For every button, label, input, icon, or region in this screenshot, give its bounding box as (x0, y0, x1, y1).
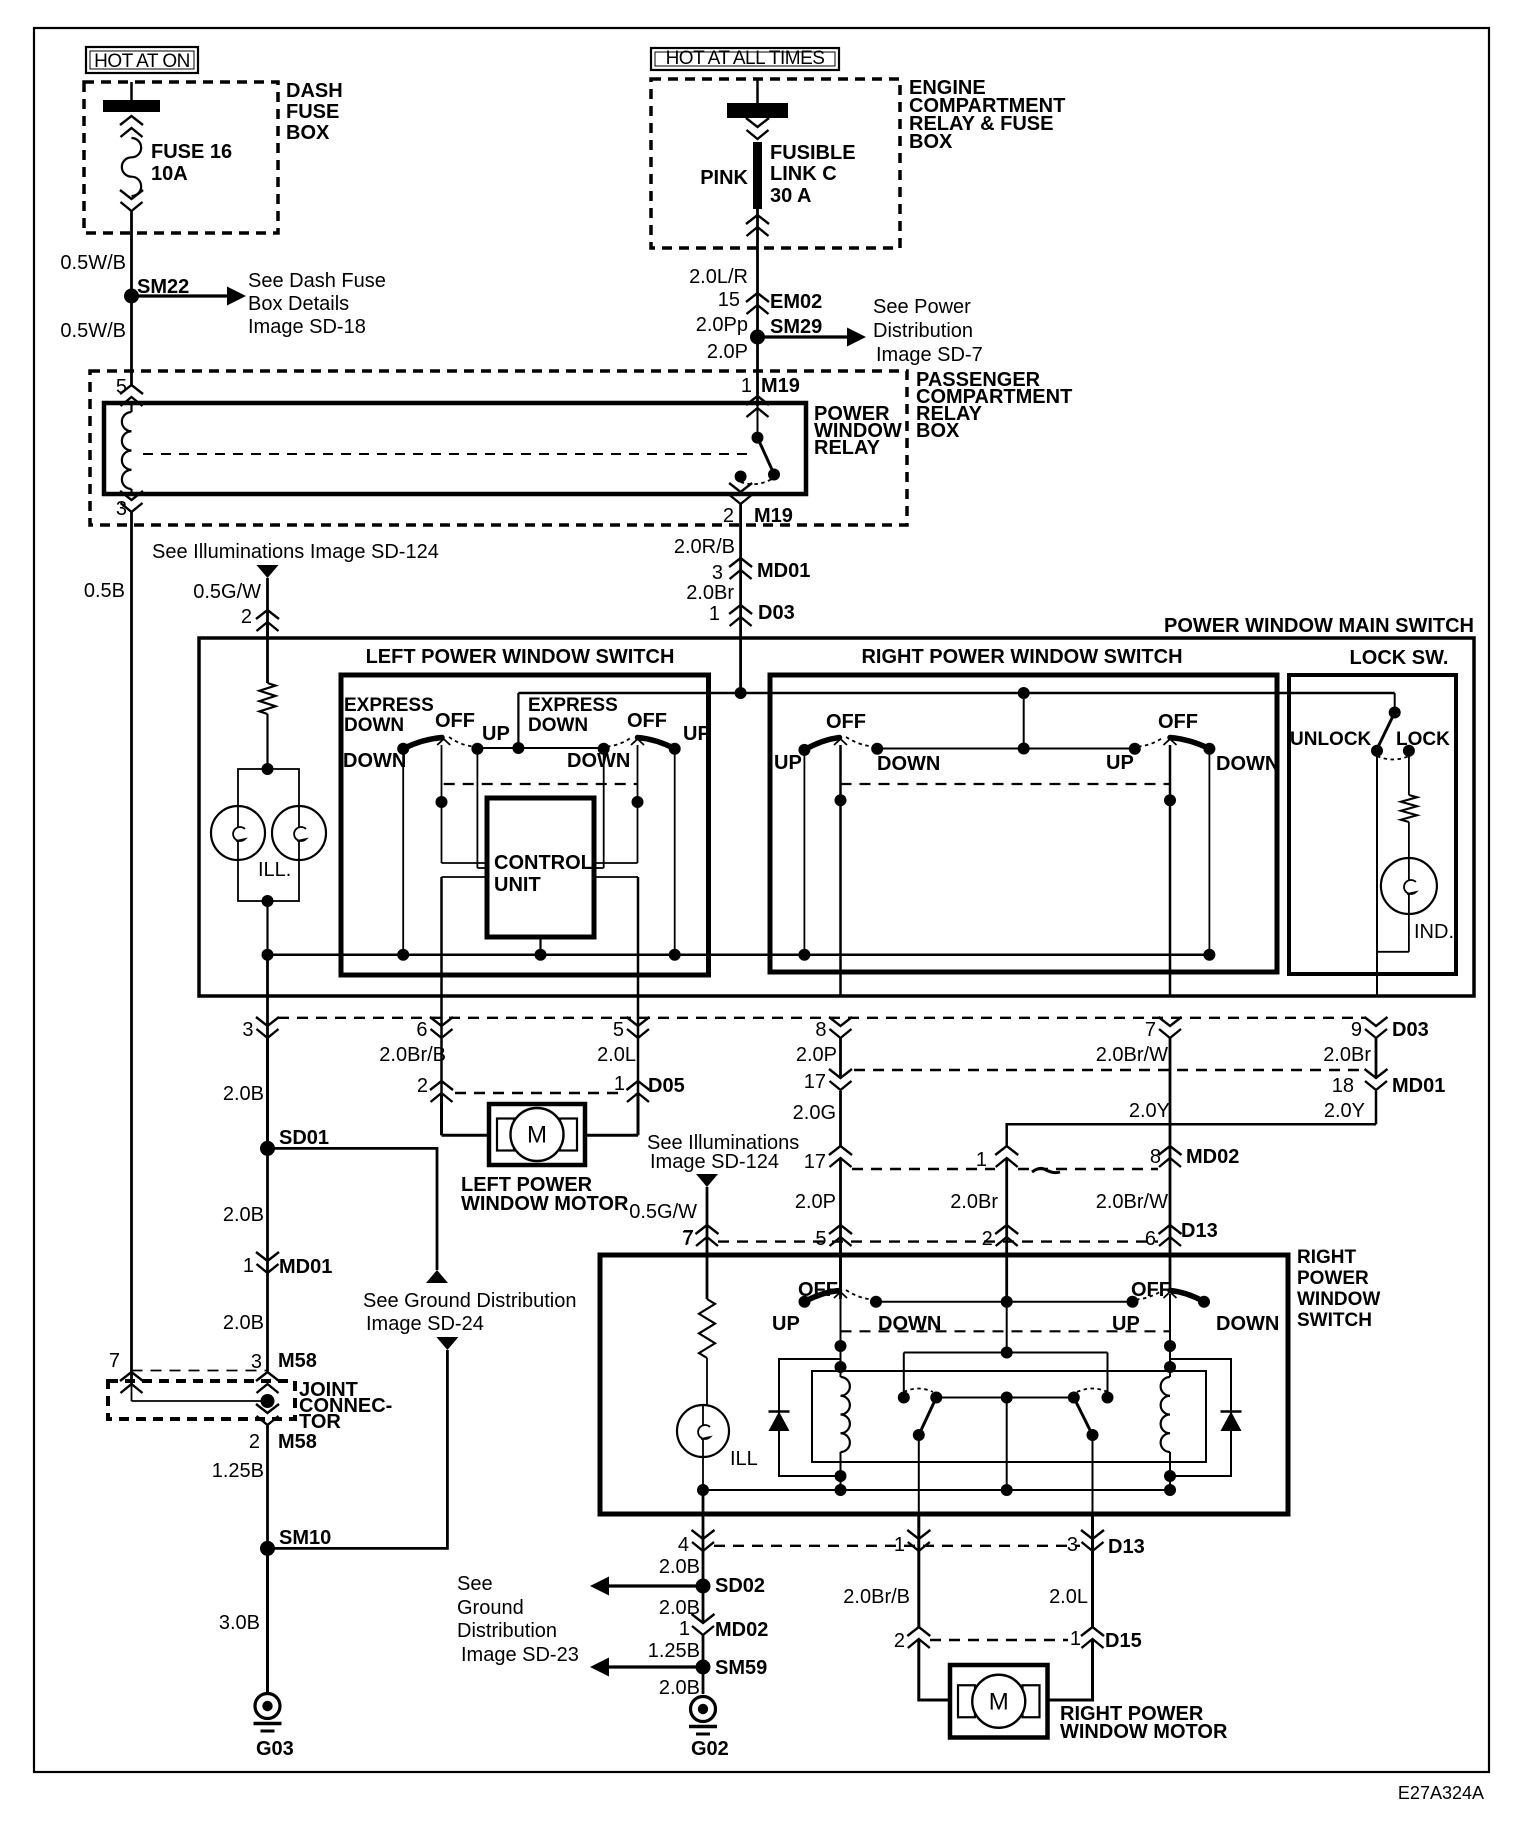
svg-text:SM59: SM59 (715, 1657, 767, 1679)
svg-text:SD01: SD01 (279, 1127, 329, 1149)
svg-text:2.0Br/W: 2.0Br/W (1096, 1044, 1168, 1066)
svg-text:2.0B: 2.0B (659, 1677, 700, 1699)
svg-text:1.25B: 1.25B (212, 1460, 264, 1482)
svg-text:LOCK SW.: LOCK SW. (1350, 647, 1449, 669)
svg-text:0.5W/B: 0.5W/B (60, 252, 126, 274)
svg-text:UP: UP (774, 752, 802, 774)
svg-text:2.0B: 2.0B (223, 1204, 264, 1226)
svg-text:5: 5 (613, 1019, 624, 1041)
svg-text:IND.: IND. (1414, 921, 1454, 943)
svg-text:1: 1 (976, 1149, 987, 1171)
svg-text:SM29: SM29 (770, 316, 822, 338)
svg-text:DOWN: DOWN (567, 750, 630, 772)
svg-text:ILL: ILL (730, 1448, 758, 1470)
svg-text:Image SD-24: Image SD-24 (366, 1313, 484, 1335)
svg-text:RIGHT POWER WINDOW SWITCH: RIGHT POWER WINDOW SWITCH (861, 646, 1182, 668)
svg-text:1: 1 (679, 1618, 690, 1640)
svg-text:E27A324A: E27A324A (1398, 1783, 1484, 1803)
svg-text:TOR: TOR (299, 1411, 341, 1433)
svg-text:UP: UP (1106, 752, 1134, 774)
svg-text:Ground: Ground (457, 1597, 524, 1619)
svg-text:2.0L/R: 2.0L/R (689, 266, 748, 288)
svg-text:UNIT: UNIT (494, 874, 541, 896)
svg-text:18: 18 (1332, 1075, 1354, 1097)
svg-text:Image SD-124: Image SD-124 (650, 1151, 779, 1173)
svg-text:DASH: DASH (286, 80, 343, 102)
svg-text:7: 7 (109, 1350, 120, 1372)
svg-text:15: 15 (718, 289, 740, 311)
svg-text:WINDOW MOTOR: WINDOW MOTOR (1060, 1721, 1228, 1743)
svg-text:1: 1 (1070, 1628, 1081, 1650)
svg-text:MD01: MD01 (1392, 1075, 1445, 1097)
svg-text:FUSE 16: FUSE 16 (151, 141, 232, 163)
svg-text:Image SD-18: Image SD-18 (248, 316, 366, 338)
svg-text:SD02: SD02 (715, 1575, 765, 1597)
svg-text:OFF: OFF (1131, 1279, 1171, 1301)
svg-text:Distribution: Distribution (457, 1620, 557, 1642)
svg-text:D15: D15 (1105, 1630, 1142, 1652)
svg-text:2.0B: 2.0B (223, 1083, 264, 1105)
svg-text:2.0Y: 2.0Y (1324, 1100, 1365, 1122)
svg-text:See Ground Distribution: See Ground Distribution (363, 1290, 576, 1312)
svg-text:POWER: POWER (1297, 1268, 1369, 1289)
svg-text:UP: UP (482, 723, 510, 745)
svg-text:See Illuminations Image SD-12: See Illuminations Image SD-124 (152, 541, 439, 563)
svg-text:SM10: SM10 (279, 1527, 331, 1549)
svg-text:MD01: MD01 (757, 560, 810, 582)
svg-text:FUSIBLE: FUSIBLE (770, 142, 856, 164)
svg-text:G03: G03 (256, 1738, 294, 1760)
svg-text:2: 2 (417, 1075, 428, 1097)
svg-text:1.25B: 1.25B (648, 1640, 700, 1662)
svg-text:6: 6 (1145, 1228, 1156, 1250)
svg-text:PINK: PINK (700, 167, 748, 189)
svg-text:DOWN: DOWN (877, 753, 940, 775)
svg-text:9: 9 (1351, 1019, 1362, 1041)
svg-text:1: 1 (709, 603, 720, 625)
svg-text:17: 17 (804, 1071, 826, 1093)
svg-text:RIGHT: RIGHT (1297, 1247, 1357, 1268)
svg-text:ILL.: ILL. (258, 859, 291, 881)
svg-text:10A: 10A (151, 163, 188, 185)
svg-text:OFF: OFF (1158, 711, 1198, 733)
svg-text:2: 2 (894, 1630, 905, 1652)
svg-text:3: 3 (712, 562, 723, 584)
svg-text:17: 17 (804, 1151, 826, 1173)
svg-text:8: 8 (1150, 1146, 1161, 1168)
svg-text:HOT AT ALL TIMES: HOT AT ALL TIMES (666, 48, 825, 69)
svg-text:M19: M19 (754, 505, 793, 527)
svg-text:2.0Pp: 2.0Pp (696, 314, 748, 336)
svg-text:UNLOCK: UNLOCK (1290, 729, 1372, 750)
svg-text:M58: M58 (278, 1431, 317, 1453)
svg-text:30 A: 30 A (770, 185, 812, 207)
svg-text:7: 7 (683, 1227, 694, 1249)
svg-text:OFF: OFF (627, 710, 667, 732)
svg-text:2.0Br/B: 2.0Br/B (843, 1586, 910, 1608)
svg-text:BOX: BOX (916, 420, 960, 442)
svg-text:DOWN: DOWN (1216, 753, 1279, 775)
svg-text:D13: D13 (1108, 1536, 1145, 1558)
svg-text:2.0L: 2.0L (597, 1044, 636, 1066)
svg-text:2.0Br: 2.0Br (686, 582, 734, 604)
svg-text:WINDOW MOTOR: WINDOW MOTOR (461, 1193, 629, 1215)
svg-text:M58: M58 (278, 1350, 317, 1372)
svg-text:Distribution: Distribution (873, 320, 973, 342)
svg-text:LINK C: LINK C (770, 163, 837, 185)
svg-text:OFF: OFF (798, 1279, 838, 1301)
svg-text:2.0B: 2.0B (659, 1556, 700, 1578)
svg-text:CONTROL: CONTROL (494, 852, 593, 874)
svg-text:DOWN: DOWN (344, 715, 404, 736)
svg-text:G02: G02 (691, 1738, 729, 1760)
svg-text:0.5G/W: 0.5G/W (629, 1201, 697, 1223)
svg-text:6: 6 (416, 1019, 427, 1041)
svg-text:See: See (457, 1573, 493, 1595)
svg-text:2.0R/B: 2.0R/B (674, 536, 735, 558)
svg-text:0.5B: 0.5B (84, 580, 125, 602)
svg-text:BOX: BOX (286, 122, 330, 144)
svg-text:M: M (527, 1122, 547, 1149)
svg-text:2: 2 (241, 606, 252, 628)
svg-text:M: M (989, 1688, 1009, 1715)
svg-text:2: 2 (249, 1431, 260, 1453)
svg-text:RELAY: RELAY (814, 437, 881, 459)
svg-text:SWITCH: SWITCH (1297, 1310, 1372, 1331)
svg-text:DOWN: DOWN (528, 715, 588, 736)
svg-text:UP: UP (683, 723, 711, 745)
svg-text:BOX: BOX (909, 131, 953, 153)
svg-text:5: 5 (116, 376, 127, 398)
svg-text:2.0Br: 2.0Br (1323, 1044, 1371, 1066)
svg-text:1: 1 (614, 1073, 625, 1095)
svg-text:5: 5 (815, 1228, 826, 1250)
svg-text:WINDOW: WINDOW (1297, 1289, 1380, 1310)
svg-text:See Dash Fuse: See Dash Fuse (248, 270, 386, 292)
svg-text:D03: D03 (758, 602, 795, 624)
svg-text:1: 1 (243, 1255, 254, 1277)
svg-text:8: 8 (815, 1019, 826, 1041)
svg-text:3: 3 (116, 498, 127, 520)
svg-text:3: 3 (251, 1351, 262, 1373)
svg-text:LEFT POWER WINDOW SWITCH: LEFT POWER WINDOW SWITCH (366, 646, 675, 668)
svg-text:3: 3 (242, 1019, 253, 1041)
svg-text:0.5W/B: 0.5W/B (60, 320, 126, 342)
svg-text:2.0Br: 2.0Br (950, 1191, 998, 1213)
svg-text:M19: M19 (761, 375, 800, 397)
svg-text:DOWN: DOWN (343, 750, 406, 772)
svg-text:0.5G/W: 0.5G/W (193, 581, 261, 603)
svg-text:DOWN: DOWN (1216, 1313, 1279, 1335)
svg-text:MD02: MD02 (715, 1619, 768, 1641)
svg-text:2.0L: 2.0L (1049, 1586, 1088, 1608)
svg-text:2.0Br/B: 2.0Br/B (379, 1044, 446, 1066)
svg-text:Box Details: Box Details (248, 293, 349, 315)
svg-text:2.0G: 2.0G (793, 1102, 836, 1124)
svg-text:2.0P: 2.0P (795, 1191, 836, 1213)
svg-text:2.0P: 2.0P (796, 1044, 837, 1066)
svg-text:Image SD-7: Image SD-7 (876, 344, 983, 366)
svg-text:MD02: MD02 (1186, 1146, 1239, 1168)
svg-text:D05: D05 (648, 1075, 685, 1097)
svg-text:D03: D03 (1392, 1019, 1429, 1041)
svg-text:EM02: EM02 (770, 291, 822, 313)
svg-text:7: 7 (1145, 1019, 1156, 1041)
svg-text:EXPRESS: EXPRESS (344, 695, 434, 716)
svg-text:EXPRESS: EXPRESS (528, 695, 618, 716)
svg-text:See Power: See Power (873, 296, 971, 318)
svg-text:Image SD-23: Image SD-23 (461, 1644, 579, 1666)
svg-text:LOCK: LOCK (1396, 729, 1450, 750)
svg-text:4: 4 (678, 1534, 689, 1556)
svg-text:2.0Y: 2.0Y (1129, 1100, 1170, 1122)
svg-text:MD01: MD01 (279, 1256, 332, 1278)
svg-text:D13: D13 (1181, 1220, 1218, 1242)
svg-text:FUSE: FUSE (286, 101, 339, 123)
svg-text:2.0B: 2.0B (223, 1312, 264, 1334)
svg-text:POWER WINDOW MAIN SWITCH: POWER WINDOW MAIN SWITCH (1164, 615, 1474, 637)
svg-text:2.0P: 2.0P (707, 341, 748, 363)
svg-text:3.0B: 3.0B (219, 1612, 260, 1634)
svg-text:2.0Br/W: 2.0Br/W (1096, 1191, 1168, 1213)
svg-text:HOT AT ON: HOT AT ON (94, 51, 190, 72)
svg-text:UP: UP (772, 1313, 800, 1335)
svg-text:OFF: OFF (435, 710, 475, 732)
svg-text:OFF: OFF (826, 711, 866, 733)
svg-text:1: 1 (741, 375, 752, 397)
svg-text:2: 2 (982, 1228, 993, 1250)
svg-text:2: 2 (723, 505, 734, 527)
